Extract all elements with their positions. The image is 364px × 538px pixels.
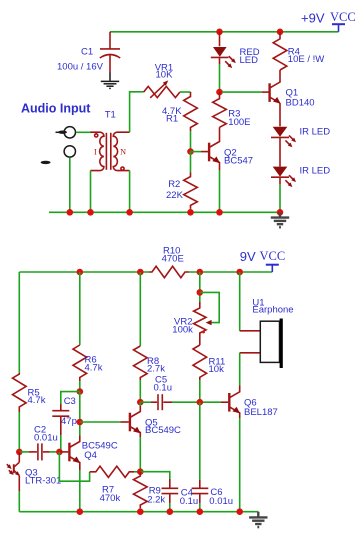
wire R7 to Q5 emitter node [134, 471, 140, 473]
speaker U1 [260, 319, 281, 369]
capacitor C1 [100, 32, 120, 73]
wire Q3 emitter to ground rail [18, 491, 20, 512]
svg-text:LTR-301: LTR-301 [25, 475, 61, 486]
transformer T1 [90, 132, 129, 170]
potentiometer VR1 [144, 80, 180, 97]
node R6 bottom [77, 388, 84, 395]
node C6 ground [197, 508, 204, 515]
node T1 primary ground [87, 209, 94, 216]
resistor R1 [184, 92, 198, 131]
wire R1 to Q2 base node [190, 131, 192, 152]
node Q4 base junction [56, 449, 63, 456]
connector pin top [56, 127, 76, 138]
svg-text:4.7k: 4.7k [28, 395, 46, 406]
node R2 ground [187, 209, 194, 216]
node Q5 collector junction [137, 399, 144, 406]
svg-text:0.01u: 0.01u [34, 433, 58, 444]
phototransistor Q3 [7, 452, 20, 491]
svg-text:T1: T1 [105, 110, 116, 121]
connector pin bottom [64, 146, 75, 157]
wire rail down to earphone [239, 272, 241, 331]
node T1 secondary ground [126, 209, 133, 216]
wire C6 to ground rail [199, 503, 201, 512]
diode RED LED [211, 32, 236, 68]
wire C5 to Q6 base [172, 401, 221, 403]
svg-text:C3: C3 [64, 396, 76, 407]
wire ground rail of transmitter [49, 211, 280, 213]
node VR2 top loop [197, 289, 204, 296]
wire T1 secondary top up to VR1 [130, 92, 144, 133]
resistor R4 [273, 32, 287, 70]
wire Q4 emitter to ground rail [79, 470, 81, 512]
resistor R10 [149, 266, 189, 277]
wire Q2 emitter to ground rail [219, 170, 221, 212]
svg-text:BEL187: BEL187 [244, 407, 278, 418]
wire VR1 to R1 top [180, 91, 191, 93]
svg-text:Audio Input: Audio Input [21, 102, 91, 116]
node pin ground [67, 209, 74, 216]
svg-text:VCC: VCC [330, 10, 356, 24]
svg-text:IR LED: IR LED [300, 126, 331, 137]
wire T1 primary bottom to ground rail [90, 171, 92, 213]
wire rail down to R6 [79, 272, 81, 345]
wire junction to Q5 base [80, 421, 121, 423]
svg-text:470k: 470k [100, 493, 121, 504]
wire C3 to Q4 base node [60, 435, 62, 452]
svg-text:100k: 100k [172, 324, 193, 335]
transistor Q6 [221, 386, 240, 419]
wire rail down to R8 [139, 272, 141, 346]
resistor R6 [73, 345, 87, 381]
node R3 top junction [216, 89, 223, 96]
wire earphone top lead [240, 330, 261, 332]
svg-text:VCC: VCC [260, 249, 286, 263]
node top rail RED LED [216, 29, 223, 36]
wire Q4 collector to Q5 base [79, 392, 81, 436]
capacitor C4 [162, 479, 179, 503]
wire R6 to Q4 collector node [79, 381, 81, 392]
node rail earphone [236, 269, 243, 276]
node Q2 emitter ground [216, 209, 223, 216]
svg-text:4.7k: 4.7k [85, 363, 103, 374]
wire R5 to Q3 node [18, 412, 20, 452]
wire C4 to ground rail [169, 503, 171, 512]
connector ground blade [41, 161, 51, 164]
resistor R9 [134, 472, 148, 508]
svg-text:Earphone: Earphone [252, 305, 293, 316]
wire C6 top [199, 402, 201, 480]
node Q6 emitter ground [236, 508, 243, 515]
wire VR2 wiper loop [200, 292, 219, 322]
svg-text:100E: 100E [228, 117, 250, 128]
diode IR LED 2 [271, 167, 296, 188]
svg-text:10K: 10K [156, 69, 174, 80]
svg-text:Q4: Q4 [84, 450, 97, 461]
svg-text:I: I [94, 148, 97, 157]
wire RED LED to node [219, 64, 221, 92]
wire ground rail of receiver [19, 511, 258, 513]
wire base node to Q2 [191, 151, 202, 153]
resistor R11 [193, 345, 207, 380]
wire +9V top rail [110, 31, 339, 33]
capacitor C2 [19, 443, 59, 460]
wire emitter node to C4 [140, 472, 170, 479]
wire rail down to VR2 [199, 272, 201, 302]
svg-text:N: N [120, 148, 126, 157]
diode IR LED 1 [271, 127, 296, 167]
node top rail R4 [277, 29, 284, 36]
node Q4 collector junction [77, 419, 84, 426]
wire Q5 emitter down [139, 437, 141, 472]
wire R9 to ground rail [139, 508, 141, 512]
transistor Q5 [121, 406, 141, 437]
node rail R10 left [137, 269, 144, 276]
node LED chain ground [277, 209, 284, 216]
svg-text:R2: R2 [168, 179, 180, 190]
node Q5 emitter junction [137, 468, 144, 475]
wire R8 to Q5 collector node [139, 380, 141, 402]
node Q4 emitter ground [77, 508, 84, 515]
potentiometer VR2 [194, 302, 212, 345]
wire 9V rail receiver right [189, 271, 272, 273]
resistor R7 [90, 466, 134, 477]
wire C3 top link [61, 392, 80, 404]
capacitor C6 [192, 480, 209, 503]
svg-text:0.1u: 0.1u [180, 496, 199, 507]
svg-text:R1: R1 [166, 114, 178, 125]
svg-text:0.1u: 0.1u [154, 383, 173, 394]
svg-text:100u / 16V: 100u / 16V [57, 61, 104, 72]
capacitor C5 [140, 394, 172, 410]
wire earphone bottom lead [240, 352, 261, 354]
svg-text:22K: 22K [166, 190, 184, 201]
wire pin top to T1 [76, 131, 92, 133]
node Q4 base junction left [16, 449, 23, 456]
svg-text:10k: 10k [209, 364, 225, 375]
node Q6 base junction [197, 399, 204, 406]
wire node to Q1 base [222, 91, 262, 93]
wire 9V rail receiver [19, 271, 149, 273]
node Q2 base junction [187, 148, 194, 155]
svg-text:0.01u: 0.01u [209, 496, 233, 507]
resistor R2 [190, 152, 192, 173]
ground below C1 [101, 73, 119, 89]
svg-text:2.7k: 2.7k [147, 364, 165, 375]
svg-text:9V: 9V [240, 249, 256, 264]
svg-text:47p: 47p [61, 416, 77, 427]
node rail R6 [77, 269, 84, 276]
wire Q5 collector up [139, 402, 141, 406]
resistor R5 [13, 373, 27, 412]
transistor Q2 [201, 127, 220, 170]
svg-text:BC547: BC547 [224, 156, 253, 167]
wire IR LED 2 to ground rail [279, 184, 281, 212]
capacitor C3 [52, 404, 69, 435]
ground symbol receiver [249, 512, 267, 527]
wire R2 to ground rail [190, 209, 192, 213]
svg-text:BC549C: BC549C [145, 425, 181, 436]
wire rail down to R5 [18, 272, 20, 373]
wire T1 secondary bottom to ground rail [129, 171, 131, 213]
wire earphone to Q6 collector [239, 353, 241, 386]
svg-text:2.2k: 2.2k [147, 494, 165, 505]
power symbol VCC receiver [266, 265, 279, 272]
resistor R3 [213, 92, 227, 127]
svg-text:BD140: BD140 [286, 97, 315, 108]
wire pin bottom down to ground rail [69, 158, 71, 213]
transistor Q1 [262, 70, 281, 126]
node rail VR2 [197, 269, 204, 276]
wire Q6 emitter to ground rail [239, 418, 241, 512]
svg-text:C1: C1 [81, 46, 93, 57]
wire Q4 base node down and over to R7 [59, 452, 89, 481]
node R9 ground [137, 508, 144, 515]
power symbol VCC top [332, 24, 345, 32]
node C4 ground [167, 508, 174, 515]
wire R11 to Q6 base node [199, 380, 201, 402]
svg-text:LED: LED [240, 55, 259, 66]
ground symbol transmitter [271, 212, 289, 227]
svg-text:10E / !W: 10E / !W [288, 54, 324, 65]
svg-text:470E: 470E [162, 254, 184, 265]
svg-text:+9V: +9V [301, 10, 325, 25]
transistor Q4 [59, 436, 80, 471]
svg-text:IR LED: IR LED [300, 166, 331, 177]
resistor R8 [134, 346, 148, 380]
